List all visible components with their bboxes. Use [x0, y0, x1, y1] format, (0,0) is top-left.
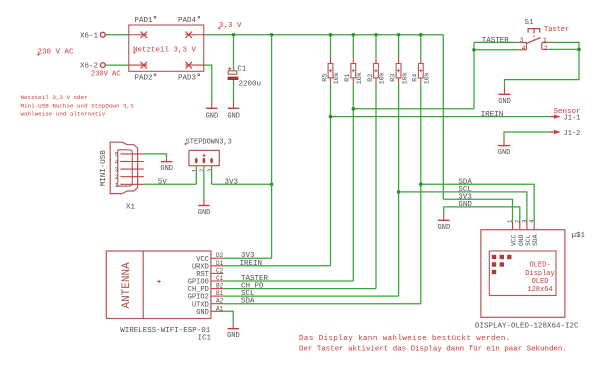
svg-text:Mini-USB Buchse und StepDown 3: Mini-USB Buchse und StepDown 3,3 [21, 102, 135, 109]
svg-text:GND: GND [498, 149, 511, 157]
ESP pin D2 [211, 252, 224, 259]
svg-text:128x64: 128x64 [527, 286, 552, 294]
svg-text:C1: C1 [216, 275, 224, 282]
ground under C1 [227, 103, 240, 121]
svg-text:230V AC: 230V AC [91, 71, 120, 79]
display module U$1 [475, 230, 586, 331]
connector pin X6-2 [80, 63, 105, 71]
wire to S1 pin 3 [474, 41, 518, 43]
X1 pin 4 [115, 159, 144, 166]
junction SDA at R4 [419, 183, 423, 187]
X1 pin 5 [115, 151, 144, 158]
svg-text:2: 2 [199, 168, 206, 172]
svg-text:PAD1: PAD1 [135, 17, 154, 25]
wire rail to C1 [233, 35, 235, 71]
svg-text:2: 2 [544, 45, 548, 52]
junction IREIN at R5 [329, 115, 333, 119]
svg-text:230 V AC: 230 V AC [38, 49, 75, 57]
wire S1 pin 2 to right corner [549, 48, 579, 50]
wire ESP VCC row [223, 257, 271, 259]
svg-text:3: 3 [521, 219, 528, 223]
note text display usage [299, 335, 567, 353]
connector X1 mini-USB shell [100, 142, 137, 211]
ESP pin A2 [211, 298, 224, 305]
svg-text:Netzteil 3,3 V: Netzteil 3,3 V [133, 47, 197, 55]
svg-text:1: 1 [543, 37, 547, 44]
svg-text:1: 1 [507, 219, 514, 223]
junction on rail at R5 [329, 33, 333, 37]
svg-text:Sensor: Sensor [554, 108, 581, 116]
voltage regulator STEPDOWN3,3 [186, 138, 232, 172]
junction S1 right [577, 48, 581, 52]
wire SDA to display [421, 184, 534, 221]
origin cross of 3,3 V label [218, 27, 221, 30]
svg-text:X6-1: X6-1 [80, 32, 99, 40]
junction on rail at R3 [397, 33, 401, 37]
svg-text:3,3 V: 3,3 V [219, 22, 242, 30]
svg-text:10k: 10k [379, 72, 387, 84]
wire ESP B2 CH_PD row [223, 288, 376, 290]
svg-text:4: 4 [115, 159, 119, 166]
resistor R1 [344, 35, 364, 85]
pad PAD3 [178, 62, 204, 83]
svg-text:R1: R1 [344, 74, 352, 82]
wire to S1 pin 4 [474, 49, 520, 51]
wire X6-2 to PAD2 [105, 64, 128, 66]
svg-text:R3: R3 [390, 74, 398, 82]
svg-text:DISPLAY-OLED-128X64-I2C: DISPLAY-OLED-128X64-I2C [475, 323, 579, 331]
X1 pin 1 [115, 182, 144, 189]
svg-text:SDA: SDA [241, 298, 255, 306]
svg-text:R4: R4 [412, 74, 420, 82]
wire X1 pin5 to GND [144, 154, 167, 158]
resistor R2 [367, 35, 387, 85]
svg-text:IREIN: IREIN [481, 111, 504, 119]
wire S1 right to GND [505, 49, 580, 87]
ESP pin C2 [211, 267, 224, 274]
ESP pin B2 [211, 283, 224, 290]
power supply module U Netzteil box [129, 25, 204, 71]
svg-text:GND: GND [438, 224, 451, 232]
connector pin J1-1 [549, 115, 580, 123]
ground under S1 [498, 88, 511, 106]
wire 3V3 vertical rail to ESP VCC [271, 35, 273, 258]
wire R3 bottom to ESP row SCL [398, 84, 400, 296]
ground at X1 pin5 [160, 158, 173, 173]
svg-text:3: 3 [115, 167, 119, 174]
ground under J1-2 [498, 139, 511, 157]
junction on rail at R1 [352, 33, 356, 37]
svg-text:PAD4: PAD4 [178, 17, 197, 25]
svg-text:Display: Display [525, 270, 554, 278]
display U$1 pin 3 [521, 219, 528, 230]
svg-text:B2: B2 [216, 283, 224, 290]
svg-text:2: 2 [514, 219, 521, 223]
svg-text:3V3: 3V3 [225, 178, 239, 186]
svg-text:VCC: VCC [511, 234, 518, 246]
wire 3V3 from stepdown [212, 183, 272, 185]
svg-text:GND: GND [518, 234, 525, 246]
junction SCL at R3 [397, 190, 401, 194]
wire C1 to GND [233, 80, 235, 103]
svg-text:GND: GND [458, 201, 472, 209]
svg-text:2: 2 [115, 174, 119, 181]
capacitor C1 [228, 66, 261, 89]
X1 pin 3 [115, 167, 144, 174]
wire 5V [144, 183, 197, 185]
svg-text:A2: A2 [216, 298, 224, 305]
svg-text:J1-2: J1-2 [564, 130, 581, 138]
svg-text:4: 4 [529, 219, 536, 223]
svg-text:10k: 10k [333, 72, 341, 84]
svg-text:C2: C2 [216, 267, 224, 274]
junction on rail at C1 [232, 33, 236, 37]
ESP pin C1 [211, 275, 224, 282]
svg-text:3: 3 [520, 37, 524, 44]
svg-text:D1: D1 [216, 260, 224, 267]
junction on rail at stepdown 3V3 [270, 33, 274, 37]
pad PAD2 [129, 62, 156, 83]
display U$1 pin 2 [514, 219, 521, 230]
wire ESP C1 TASTER row [223, 280, 353, 282]
junction TASTER pins 3-4 [472, 48, 476, 52]
note text alternative supply [21, 94, 135, 118]
svg-text:GND: GND [196, 309, 209, 317]
svg-text:Taster: Taster [544, 26, 569, 34]
svg-text:MINI-USB: MINI-USB [100, 150, 108, 187]
wire S1 pin 1 to right corner [549, 42, 579, 49]
origin cross of Netzteil value [133, 51, 136, 54]
svg-text:1: 1 [192, 168, 199, 172]
resistor R5 [321, 35, 341, 85]
svg-text:5: 5 [115, 151, 119, 158]
svg-text:Das Display kann wahlweise bes: Das Display kann wahlweise bestückt werd… [299, 335, 511, 343]
svg-text:5V: 5V [158, 178, 168, 186]
wire X6-1 to PAD1 [105, 34, 128, 36]
svg-text:GND: GND [160, 165, 173, 173]
ESP pin B1 [211, 290, 224, 297]
ground under PAD3 wire [206, 103, 219, 121]
display U$1 pin 4 [529, 219, 536, 230]
junction on rail at R2 [374, 33, 378, 37]
svg-text:A1: A1 [216, 305, 224, 312]
svg-text:PAD3: PAD3 [178, 75, 197, 83]
svg-text:IREIN: IREIN [240, 260, 263, 268]
svg-text:10k: 10k [356, 72, 364, 84]
svg-text:SCL: SCL [525, 234, 532, 246]
ESP pin D1 [211, 260, 224, 267]
pad PAD1 [129, 16, 156, 38]
wire TASTER horizontal [353, 108, 474, 110]
svg-text:SDA: SDA [532, 234, 539, 246]
svg-text:1: 1 [115, 182, 119, 189]
wire R1 bottom to ESP row TASTER [352, 84, 354, 281]
wire ESP A1 to GND [223, 311, 233, 324]
wire 3V3 main vertical [442, 35, 444, 200]
svg-text:S1: S1 [525, 19, 535, 27]
svg-text:µ$1: µ$1 [572, 232, 586, 240]
wire R2 bottom to ESP row CH_PD [375, 84, 377, 289]
ground at ESP A1 [227, 324, 240, 340]
svg-text:R2: R2 [367, 74, 375, 82]
junction on rail at R4 [419, 33, 423, 37]
svg-text:GND: GND [227, 332, 240, 340]
module IC1 ESP-01 box [106, 251, 211, 343]
svg-text:X6-2: X6-2 [80, 63, 98, 71]
svg-text:4: 4 [522, 45, 526, 52]
wire 3V3 to display [443, 199, 512, 221]
wire ESP D1 IREIN row [223, 265, 330, 267]
wire SCL to display [399, 192, 527, 222]
svg-text:TASTER: TASTER [482, 37, 510, 45]
wire GND to display [444, 207, 520, 222]
wire PAD3 to GND [204, 65, 212, 103]
svg-text:3: 3 [207, 168, 214, 172]
switch S1 [518, 19, 549, 52]
resistor R4 [412, 35, 432, 85]
origin cross of 230 V AC label [37, 53, 40, 56]
display U$1 pin 1 [507, 219, 514, 230]
svg-text:R5: R5 [321, 74, 329, 82]
wire J1-2 to GND [504, 132, 549, 139]
svg-text:GND: GND [498, 98, 511, 106]
svg-text:2200u: 2200u [239, 81, 262, 89]
svg-text:wahlweise und alternativ: wahlweise und alternativ [21, 111, 106, 118]
wire ESP A2 SDA row [223, 303, 420, 305]
wire R4 bottom to ESP row SDA [420, 84, 422, 304]
junction TASTER at R1 [352, 107, 356, 111]
svg-text:IC1: IC1 [198, 335, 212, 343]
svg-text:C1: C1 [237, 66, 247, 74]
junction 3V3 [270, 183, 274, 187]
ground under stepdown [198, 200, 211, 217]
ESP pin A1 [211, 305, 224, 312]
svg-text:GND: GND [198, 209, 211, 217]
wire R5 bottom to ESP row IREIN [330, 84, 332, 266]
wire ESP B1 SCL row [223, 295, 398, 297]
origin cross of STEPDOWN3,3 label [184, 143, 187, 146]
connector pin X6-1 [80, 32, 105, 40]
svg-text:X1: X1 [126, 204, 136, 212]
svg-text:GND: GND [206, 113, 219, 121]
svg-text:OLED-: OLED- [529, 262, 550, 270]
pad PAD4 [178, 16, 204, 38]
wire stepdown pin1 [195, 166, 197, 185]
svg-text:OLED: OLED [532, 278, 549, 286]
wire stepdown pin2 to GND [203, 166, 205, 200]
svg-text:D2: D2 [216, 252, 224, 259]
X1 pin 2 [115, 174, 144, 181]
svg-text:Der Taster aktiviert das Displ: Der Taster aktiviert das Display dann fü… [299, 346, 567, 354]
svg-text:10k: 10k [401, 72, 409, 84]
wire 3.3V rail [204, 34, 444, 36]
svg-text:B1: B1 [216, 290, 224, 297]
wire IREIN horizontal [331, 116, 550, 118]
resistor R3 [390, 35, 410, 85]
svg-text:Netzteil 3,3 V oder: Netzteil 3,3 V oder [21, 94, 88, 101]
svg-text:STEPDOWN3,3: STEPDOWN3,3 [186, 138, 232, 146]
svg-text:ANTENNA: ANTENNA [121, 262, 133, 309]
svg-text:GND: GND [227, 113, 240, 121]
svg-text:PAD2: PAD2 [135, 75, 153, 83]
wire stepdown pin3 [211, 166, 213, 185]
svg-text:10k: 10k [424, 72, 432, 84]
wire TASTER vertical to S1 [473, 42, 475, 108]
connector pin J1-2 [549, 130, 580, 138]
ground at display wires [438, 215, 451, 232]
